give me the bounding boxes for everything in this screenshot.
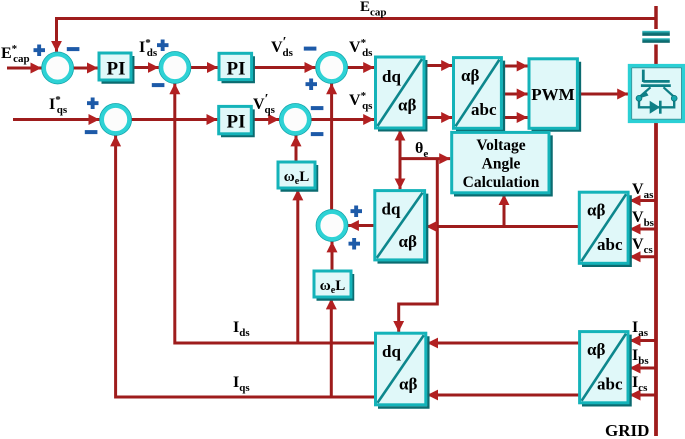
svg-text:dq: dq <box>382 342 401 361</box>
voltage angle calculation box <box>452 132 552 195</box>
svg-text:abc: abc <box>471 100 497 119</box>
sign plus sum6 lower <box>349 238 361 250</box>
wire ab1 to PWM a <box>501 65 527 68</box>
svg-text:abc: abc <box>597 235 623 254</box>
label Ibs <box>632 347 649 367</box>
label theta-e <box>415 140 428 160</box>
dq/ab box dq2 <box>375 191 427 263</box>
svg-text:αβ: αβ <box>399 375 417 394</box>
PI box PI2 <box>219 53 254 82</box>
wire E*cap input <box>7 67 42 70</box>
sign minus sum4 lower <box>311 132 324 136</box>
weL box 1 <box>278 162 317 191</box>
sign minus sum5 <box>85 130 98 134</box>
ab/abc box Iabc <box>580 332 631 406</box>
svg-text:Calculation: Calculation <box>463 174 540 191</box>
label I*ds <box>139 37 158 59</box>
svg-text:Angle: Angle <box>482 156 521 173</box>
sign plus sum3 <box>306 79 318 91</box>
wire weL1 to sum4 <box>295 135 298 162</box>
wire weL2 to sum6 <box>331 241 334 271</box>
ab/abc box Vabc <box>579 192 630 266</box>
wire dq1 to ab1 upper <box>424 64 452 67</box>
wire PWM to converter <box>577 93 628 96</box>
label Ecap top <box>360 0 387 19</box>
sign plus sum6 upper <box>351 206 363 218</box>
converter box (IGBT with diode) <box>629 65 685 123</box>
label Vcs <box>632 236 653 256</box>
wire ab1 to PWM b <box>501 93 527 96</box>
label Ids <box>233 319 250 339</box>
label V*ds <box>349 37 373 59</box>
wire Ids feedback <box>175 83 376 343</box>
sign plus sum2 <box>157 40 169 52</box>
svg-text:αβ: αβ <box>399 232 417 251</box>
wire theta-e vertical dq1-dq2 <box>399 130 402 190</box>
sign minus sum4 upper <box>311 106 324 110</box>
PI box PI3 <box>219 106 254 136</box>
wire I*qs input <box>13 118 99 121</box>
wire Vas input <box>630 199 657 202</box>
capacitor C dc-link <box>642 29 670 45</box>
summing node sum3 <box>316 52 348 84</box>
wire V*qs sum4 to dq1 <box>311 118 374 121</box>
svg-text:αβ: αβ <box>587 340 605 359</box>
wire sum5 to PI3 <box>131 118 217 121</box>
dq/ab box dq1 <box>376 57 427 130</box>
PI box PI1 <box>99 53 133 83</box>
label V*qs <box>349 90 373 112</box>
sign minus sum3 <box>304 47 317 51</box>
wire theta-e to dq3 <box>399 159 438 332</box>
sign plus sum5 <box>87 98 99 110</box>
dq/ab box dq3 <box>376 333 429 407</box>
ab/abc box ab1 <box>454 58 504 131</box>
wire sum2 to PI2 <box>191 66 219 69</box>
weL box 2 <box>314 271 353 300</box>
wire dq2 to sum6 <box>348 224 375 227</box>
svg-text:PI: PI <box>227 59 246 80</box>
wire V*ds sum3 to dq1 <box>347 66 374 69</box>
summing node sum1 <box>42 52 74 84</box>
wire V'qs PI3 to sum4 <box>252 118 280 121</box>
wire Ibs input <box>630 367 657 370</box>
wire Ecap feedback top <box>57 19 657 52</box>
svg-text:Voltage: Voltage <box>476 137 525 154</box>
sign minus sum2 <box>152 83 165 87</box>
svg-text:PI: PI <box>107 59 126 80</box>
wire theta-e to voltage angle calc <box>400 157 450 160</box>
wire Vcs input <box>630 255 657 258</box>
wire Iqs feedback <box>116 135 376 397</box>
summing node sum5 <box>100 104 132 136</box>
summing node sum6 <box>316 210 348 242</box>
wire PI1 to sum2 <box>131 66 159 69</box>
wire Iqs branch to weL2 <box>330 298 333 397</box>
wire ab1 to PWM c <box>501 116 527 119</box>
label Iqs <box>233 374 250 394</box>
wire Iab to dq3 lower <box>427 394 579 397</box>
wire sum6 to sum3 <box>330 83 333 209</box>
svg-text:PWM: PWM <box>531 85 574 104</box>
wire dq1 to ab1 lower <box>424 116 452 119</box>
label GRID <box>605 421 649 439</box>
wire Vbs input <box>630 228 657 231</box>
wire Vab to dq2 <box>426 225 579 228</box>
svg-text:abc: abc <box>597 375 623 394</box>
label I*qs <box>49 94 68 116</box>
summing node sum4 <box>280 104 312 136</box>
wire Ids branch to weL1 <box>296 189 299 343</box>
label Vbs <box>632 209 655 229</box>
svg-text:αβ: αβ <box>587 201 605 220</box>
sign minus sum1 <box>67 47 80 51</box>
wire sum1 to PI1 <box>73 67 99 70</box>
PWM box <box>529 59 580 131</box>
label Ics <box>632 374 648 394</box>
wire DC link top <box>654 6 658 66</box>
svg-text:PI: PI <box>227 112 246 133</box>
wire Vab branch to voltage angle calc <box>503 194 506 226</box>
label E*cap <box>1 43 30 65</box>
label Ias <box>632 319 649 339</box>
svg-text:dq: dq <box>382 200 401 219</box>
wire Ics input <box>630 394 657 397</box>
svg-text:GRID: GRID <box>605 421 649 439</box>
wire Ias input <box>630 339 657 342</box>
wire V'ds PI2 to sum3 <box>252 66 316 69</box>
svg-text:dq: dq <box>382 67 401 86</box>
label Vas <box>632 181 654 201</box>
wire Iab to dq3 upper <box>427 342 579 345</box>
wire GRID bus <box>654 121 658 436</box>
label V'qs <box>253 92 276 116</box>
summing node sum2 <box>159 52 191 84</box>
sign plus sum1 <box>34 45 46 57</box>
svg-text:αβ: αβ <box>461 66 479 85</box>
label V'ds <box>271 35 294 59</box>
svg-text:αβ: αβ <box>398 96 416 115</box>
